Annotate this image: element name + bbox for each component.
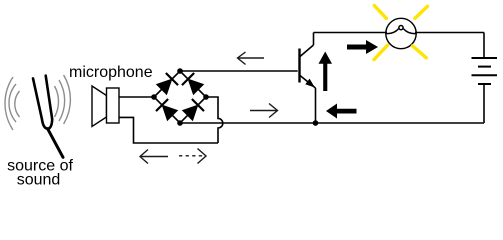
svg-text:sound: sound: [17, 172, 61, 189]
lamp filament: [386, 26, 416, 34]
transistor emitter arrowhead: [305, 79, 315, 88]
wire top rail right: [415, 32, 484, 34]
bridge rectifier frame: [154, 71, 206, 123]
lamp rays yellow: [374, 6, 428, 60]
node left: [151, 94, 157, 100]
tuning fork: [33, 76, 63, 158]
lamp L1: [386, 18, 416, 48]
arrow thin left (base current): [238, 52, 265, 65]
wire bridge top to base: [180, 70, 298, 72]
arrow thick up (collector current): [319, 52, 333, 92]
wire bottom rail: [180, 122, 484, 124]
arrow thick left (bottom rail): [326, 104, 357, 119]
arrow thin left (mic loop): [140, 150, 168, 164]
diode D2 upper-right: [182, 73, 204, 95]
sound waves left arcs: [5, 77, 19, 130]
transistor Q1: [300, 33, 316, 124]
arrow thin right (mid): [250, 104, 278, 118]
microphone cone (trapezoid): [92, 86, 107, 127]
svg-text:microphone: microphone: [69, 64, 153, 81]
microphone body (rect): [107, 88, 120, 123]
node emitter junction: [313, 120, 319, 126]
diode D3 lower-left: [156, 99, 178, 121]
wire vertical with hop to bridge right: [206, 97, 223, 143]
sound waves right arcs: [55, 75, 71, 124]
wire mic top to bridge left: [119, 96, 154, 98]
arrow thick right (to lamp): [347, 40, 378, 54]
battery B1: [472, 33, 498, 124]
wire collector top rail left: [314, 32, 388, 34]
diode D1 upper-left: [156, 73, 178, 95]
diode D4 lower-right: [182, 99, 204, 121]
arrow dashed right (mic loop): [179, 149, 206, 164]
node right: [203, 94, 209, 100]
node bottom: [177, 120, 183, 126]
node top: [177, 68, 183, 74]
wire mic bottom run: [119, 117, 218, 143]
